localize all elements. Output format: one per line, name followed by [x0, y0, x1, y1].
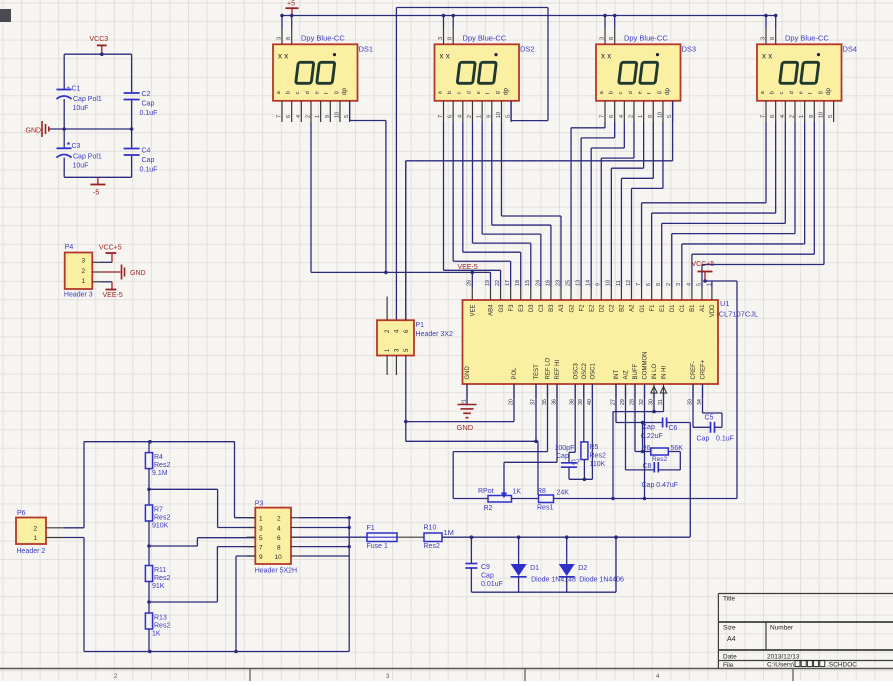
svg-text:P3: P3 — [255, 501, 264, 508]
svg-text:4: 4 — [277, 526, 281, 533]
svg-text:D3: D3 — [529, 304, 535, 312]
svg-text:6: 6 — [609, 115, 615, 118]
svg-text:OSC2: OSC2 — [582, 362, 588, 379]
svg-text:91K: 91K — [152, 583, 165, 590]
svg-text:C1: C1 — [72, 86, 81, 93]
svg-text:6: 6 — [448, 115, 454, 118]
svg-text:10: 10 — [818, 112, 824, 118]
svg-text:DS1: DS1 — [359, 45, 374, 54]
svg-text:6: 6 — [277, 535, 281, 542]
svg-text:VCC3: VCC3 — [90, 36, 109, 43]
svg-text:0.1uF: 0.1uF — [140, 110, 158, 117]
svg-text:Res1: Res1 — [537, 505, 553, 512]
svg-text:1: 1 — [34, 535, 38, 542]
svg-text:Res2: Res2 — [154, 575, 170, 582]
svg-text:8: 8 — [609, 37, 615, 40]
svg-text:C3: C3 — [72, 143, 81, 150]
svg-text:Number: Number — [770, 625, 794, 632]
svg-text:DS4: DS4 — [843, 45, 858, 54]
svg-text:Cap Pol1: Cap Pol1 — [73, 96, 102, 103]
svg-text:10: 10 — [334, 112, 340, 118]
svg-text:CREF+: CREF+ — [701, 359, 707, 379]
svg-text:-5: -5 — [93, 190, 99, 197]
svg-text:R5: R5 — [590, 444, 599, 451]
svg-text:R10: R10 — [424, 525, 437, 532]
svg-text:3: 3 — [82, 258, 86, 265]
svg-text:4: 4 — [296, 115, 302, 118]
svg-text:6: 6 — [286, 115, 292, 118]
svg-text:CREF-: CREF- — [691, 361, 697, 379]
svg-text:E1: E1 — [660, 304, 666, 312]
svg-text:Size: Size — [723, 625, 736, 632]
svg-text:C2: C2 — [142, 91, 151, 98]
svg-text:10: 10 — [275, 554, 283, 561]
svg-text:6: 6 — [770, 115, 776, 118]
svg-text:5: 5 — [828, 115, 834, 118]
svg-text:3: 3 — [277, 37, 283, 40]
svg-text:R11: R11 — [154, 567, 166, 574]
svg-text:8: 8 — [448, 37, 454, 40]
svg-text:REF LO: REF LO — [546, 357, 552, 379]
svg-text:1: 1 — [315, 115, 321, 118]
svg-text:File: File — [723, 662, 734, 669]
svg-text:8: 8 — [277, 545, 281, 552]
svg-text:E3: E3 — [519, 304, 525, 312]
svg-text:R8: R8 — [537, 488, 546, 495]
svg-text:2: 2 — [628, 115, 634, 118]
svg-text:2: 2 — [34, 526, 38, 533]
svg-text:VDD: VDD — [710, 304, 716, 317]
svg-text:3: 3 — [438, 37, 444, 40]
svg-text:POL: POL — [512, 367, 518, 380]
svg-text:A2: A2 — [630, 304, 636, 312]
svg-text:C4: C4 — [142, 148, 151, 155]
svg-text:RPot: RPot — [478, 488, 494, 495]
svg-text:7: 7 — [761, 115, 767, 118]
svg-text:AB4: AB4 — [489, 304, 495, 316]
svg-text:Res2: Res2 — [154, 623, 170, 630]
svg-text:9: 9 — [809, 115, 815, 118]
svg-text:OSC3: OSC3 — [573, 362, 579, 379]
svg-text:7: 7 — [277, 115, 283, 118]
svg-text:A3: A3 — [559, 304, 565, 312]
svg-text:B2: B2 — [620, 304, 626, 312]
svg-text:DS2: DS2 — [520, 45, 535, 54]
svg-text:2: 2 — [789, 115, 795, 118]
svg-text:C1: C1 — [680, 304, 686, 312]
svg-text:IN HI: IN HI — [662, 366, 668, 380]
svg-text:A1: A1 — [700, 304, 706, 312]
svg-text:Cap Pol1: Cap Pol1 — [73, 154, 102, 161]
svg-text:F1: F1 — [650, 304, 656, 312]
svg-text:B3: B3 — [549, 304, 555, 312]
svg-text:110K: 110K — [590, 461, 606, 468]
svg-text:D1: D1 — [670, 304, 676, 312]
svg-text:GND: GND — [130, 270, 146, 277]
svg-text:D1: D1 — [530, 565, 539, 572]
svg-text:Title: Title — [723, 596, 735, 603]
svg-text:7: 7 — [438, 115, 444, 118]
svg-text:910K: 910K — [152, 523, 169, 530]
svg-text:1K: 1K — [152, 631, 161, 638]
svg-text:D2: D2 — [578, 565, 587, 572]
svg-text:1: 1 — [799, 115, 805, 118]
svg-text:INT: INT — [614, 370, 620, 380]
svg-text:P1: P1 — [416, 322, 425, 329]
svg-text:C2: C2 — [610, 304, 616, 312]
svg-text:Header 3: Header 3 — [64, 292, 93, 299]
svg-text:4: 4 — [457, 115, 463, 118]
svg-text:E2: E2 — [589, 304, 595, 312]
svg-text:Cap: Cap — [556, 453, 569, 460]
svg-text:2: 2 — [467, 115, 473, 118]
svg-text:R7: R7 — [154, 507, 163, 514]
svg-text:Res2: Res2 — [590, 453, 606, 460]
svg-text:Fuse 1: Fuse 1 — [367, 543, 389, 550]
svg-text:OSC1: OSC1 — [591, 362, 597, 379]
svg-text:Dpy Blue-CC: Dpy Blue-CC — [624, 34, 668, 43]
svg-text:Cap: Cap — [142, 157, 155, 164]
svg-text:R6: R6 — [642, 445, 651, 452]
svg-text:R2: R2 — [484, 505, 493, 512]
svg-text:1: 1 — [638, 115, 644, 118]
svg-text:GND: GND — [457, 423, 474, 432]
svg-text:Cap: Cap — [142, 101, 155, 108]
svg-text:Dpy Blue-CC: Dpy Blue-CC — [785, 34, 829, 43]
svg-text:F2: F2 — [579, 304, 585, 312]
svg-text:F3: F3 — [509, 304, 515, 312]
svg-text:3: 3 — [600, 37, 606, 40]
svg-text:2: 2 — [277, 516, 281, 523]
svg-text:Header 3X2: Header 3X2 — [416, 331, 453, 338]
svg-text:C7: C7 — [571, 460, 580, 467]
svg-text:Header 5X2H: Header 5X2H — [255, 568, 297, 575]
svg-text:COMMON: COMMON — [643, 352, 649, 380]
svg-text:2: 2 — [305, 115, 311, 118]
svg-text:7: 7 — [600, 115, 606, 118]
svg-text:VCC+5: VCC+5 — [692, 261, 715, 268]
svg-text:2: 2 — [82, 268, 86, 275]
svg-text:5: 5 — [259, 535, 263, 542]
svg-text:1: 1 — [259, 516, 263, 523]
svg-text:Diode 1N4406: Diode 1N4406 — [579, 577, 624, 584]
svg-text:Date: Date — [723, 654, 737, 661]
svg-text:P6: P6 — [17, 510, 26, 517]
svg-text:+5: +5 — [287, 1, 295, 8]
svg-text:1: 1 — [477, 115, 483, 118]
svg-text:GND: GND — [26, 128, 42, 135]
svg-text:Dpy Blue-CC: Dpy Blue-CC — [463, 34, 507, 43]
svg-text:8: 8 — [770, 37, 776, 40]
svg-text:24K: 24K — [557, 490, 570, 497]
svg-text:TEST: TEST — [534, 364, 540, 380]
svg-text:.SCHDOC: .SCHDOC — [827, 662, 857, 669]
svg-text:REF HI: REF HI — [555, 360, 561, 380]
svg-text:A/Z: A/Z — [624, 370, 630, 380]
svg-text:U1: U1 — [720, 299, 730, 308]
svg-text:BUFF: BUFF — [633, 364, 639, 380]
svg-text:3: 3 — [259, 526, 263, 533]
svg-text:IN LO: IN LO — [652, 363, 658, 379]
svg-text:Res2: Res2 — [154, 515, 170, 522]
svg-text:8: 8 — [286, 37, 292, 40]
svg-text:100pF: 100pF — [555, 445, 575, 452]
svg-text:R4: R4 — [154, 454, 163, 461]
svg-text:R13: R13 — [154, 615, 167, 622]
svg-text:9: 9 — [325, 115, 331, 118]
svg-text:P4: P4 — [65, 244, 74, 251]
svg-text:Cap 0.47uF: Cap 0.47uF — [642, 482, 679, 489]
svg-text:Cap: Cap — [697, 436, 710, 443]
svg-text:9.1M: 9.1M — [152, 470, 168, 477]
svg-text:C3: C3 — [539, 304, 545, 312]
svg-text:G1: G1 — [640, 304, 646, 313]
svg-text:10: 10 — [657, 112, 663, 118]
svg-text:0.1uF: 0.1uF — [716, 436, 734, 443]
svg-text:10uF: 10uF — [73, 163, 89, 170]
svg-text:G3: G3 — [499, 304, 505, 313]
svg-text:Dpy Blue-CC: Dpy Blue-CC — [301, 34, 345, 43]
svg-text:A4: A4 — [727, 636, 736, 643]
svg-text:3: 3 — [761, 37, 767, 40]
svg-text:Res2: Res2 — [652, 456, 668, 463]
svg-text:Res2: Res2 — [424, 543, 440, 550]
svg-text:VEE: VEE — [471, 305, 477, 317]
svg-text:1: 1 — [82, 278, 86, 285]
svg-text:F1: F1 — [367, 525, 375, 532]
svg-text:9: 9 — [259, 554, 263, 561]
svg-text:0.1uF: 0.1uF — [140, 167, 158, 174]
svg-text:C9: C9 — [481, 564, 490, 571]
svg-text:0.01uF: 0.01uF — [481, 581, 503, 588]
svg-text:4: 4 — [780, 115, 786, 118]
svg-text:10: 10 — [496, 112, 502, 118]
svg-text:C:\Users\: C:\Users\ — [767, 662, 794, 669]
svg-text:Header 2: Header 2 — [17, 548, 46, 555]
svg-text:4: 4 — [619, 115, 625, 118]
svg-text:B1: B1 — [690, 304, 696, 312]
svg-text:C5: C5 — [705, 415, 714, 422]
svg-text:Res2: Res2 — [154, 462, 170, 469]
svg-text:2013/12/13: 2013/12/13 — [767, 654, 800, 661]
svg-text:DS3: DS3 — [682, 45, 697, 54]
svg-text:GND: GND — [465, 366, 471, 380]
svg-text:1M: 1M — [444, 528, 454, 537]
svg-text:7: 7 — [259, 545, 263, 552]
svg-text:+: + — [67, 86, 71, 92]
svg-text:G2: G2 — [569, 304, 575, 313]
svg-text:56K: 56K — [671, 445, 684, 452]
svg-text:9: 9 — [486, 115, 492, 118]
svg-text:9: 9 — [648, 115, 654, 118]
svg-text:C6: C6 — [669, 425, 678, 432]
svg-text:VEE-5: VEE-5 — [103, 292, 123, 299]
svg-text:1K: 1K — [513, 489, 522, 496]
svg-text:Cap: Cap — [481, 573, 494, 580]
svg-text:D2: D2 — [599, 304, 605, 312]
svg-text:10uF: 10uF — [73, 105, 89, 112]
svg-text:VCC+5: VCC+5 — [99, 245, 122, 252]
